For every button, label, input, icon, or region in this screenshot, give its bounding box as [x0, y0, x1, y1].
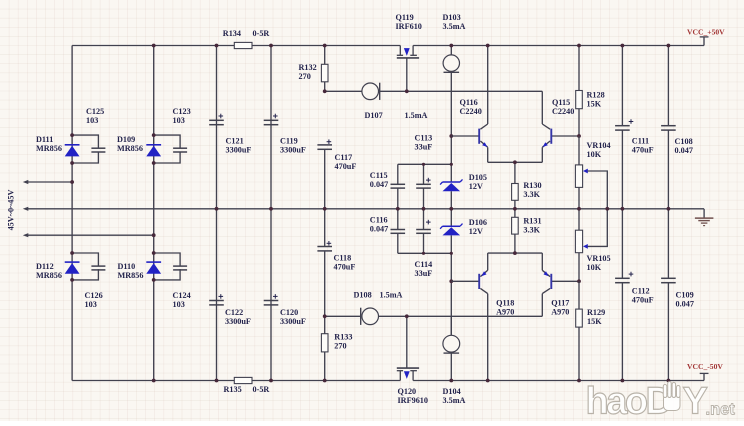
svg-text:12V: 12V: [469, 182, 483, 191]
node junction Q117 base: [577, 279, 581, 283]
svg-text:Q115: Q115: [552, 98, 570, 107]
svg-text:haoD: haoD: [586, 381, 672, 422]
svg-text:C116: C116: [370, 216, 388, 225]
svg-text:C124: C124: [173, 291, 191, 300]
wire +50V top rail: [72, 45, 704, 47]
diode D104 3.5mA current regulator: [443, 316, 466, 405]
wire lower emitter rail: [488, 252, 543, 254]
svg-text:R130: R130: [523, 181, 541, 190]
svg-text:3300uF: 3300uF: [280, 317, 306, 326]
capacitor C113 33uF: [415, 134, 433, 209]
svg-text:0-5R: 0-5R: [253, 385, 270, 394]
capacitor C125 103: [72, 107, 105, 163]
resistor R130 3.3K: [512, 162, 542, 209]
svg-text:103: 103: [85, 300, 97, 309]
resistor R129 15K: [576, 281, 606, 380]
transistor Q115 C2240: [542, 98, 574, 162]
svg-text:C121: C121: [226, 137, 244, 146]
node junction VR center: [577, 207, 609, 211]
wire Q115 base link: [551, 135, 579, 137]
diode D107 1.5mA current regulator: [362, 83, 428, 120]
resistor R131 3.3K: [512, 209, 542, 253]
capacitor C114 33uF: [415, 209, 433, 278]
svg-text:3.3K: 3.3K: [523, 226, 540, 235]
node junction upper emitters: [513, 160, 517, 164]
wire C117 to center: [324, 149, 326, 209]
svg-text:IRF9610: IRF9610: [398, 396, 428, 405]
svg-text:103: 103: [173, 116, 185, 125]
power VCC +50V: [687, 28, 725, 46]
svg-text:C125: C125: [86, 107, 104, 116]
node junction input bottom: [152, 233, 156, 237]
potentiometer VR104 10K: [575, 136, 610, 209]
svg-text:C2240: C2240: [552, 107, 574, 116]
svg-text:33uF: 33uF: [415, 269, 433, 278]
node junction Q116 collector rail: [486, 44, 490, 48]
svg-text:VCC_+50V: VCC_+50V: [687, 28, 725, 37]
svg-text:C112: C112: [632, 287, 650, 296]
svg-text:D105: D105: [469, 173, 487, 182]
svg-text:D106: D106: [469, 218, 487, 227]
capacitor C112 470uF: [615, 209, 654, 381]
svg-text:D103: D103: [443, 13, 461, 22]
capacitor C124 103: [154, 253, 191, 309]
capacitor C121 3300uF: [209, 46, 251, 209]
svg-text:D109: D109: [117, 135, 135, 144]
svg-text:Q117: Q117: [551, 299, 569, 308]
svg-text:D104: D104: [443, 387, 461, 396]
svg-text:C115: C115: [370, 171, 388, 180]
svg-text:R133: R133: [334, 333, 352, 342]
diode D106 12V zener: [440, 218, 487, 236]
transistor Q118 A970: [479, 253, 514, 380]
node junction R128 rail: [577, 44, 581, 48]
svg-text:3300uF: 3300uF: [226, 146, 252, 155]
potentiometer VR105 10K: [575, 209, 610, 281]
node input arrows: [23, 180, 29, 237]
capacitor C117 470uF: [317, 139, 356, 171]
svg-text:D111: D111: [36, 135, 53, 144]
svg-text:MR856: MR856: [118, 271, 144, 280]
svg-text:MR856: MR856: [36, 144, 62, 153]
node junctions top rail: [152, 44, 671, 48]
svg-text:3.3K: 3.3K: [523, 190, 540, 199]
svg-text:R131: R131: [523, 217, 541, 226]
resistor R135 0-5R: [224, 377, 270, 393]
wire bias bracket bottom: [398, 233, 452, 253]
svg-text:3300uF: 3300uF: [280, 146, 306, 155]
svg-text:A970: A970: [551, 308, 569, 317]
svg-text:Y: Y: [683, 381, 708, 422]
svg-text:C122: C122: [225, 308, 243, 317]
svg-text:VCC_-50V: VCC_-50V: [687, 362, 723, 371]
svg-text:MR856: MR856: [117, 144, 143, 153]
node junction R133-C118: [323, 314, 327, 318]
svg-text:103: 103: [173, 300, 185, 309]
node junctions D110: [152, 251, 156, 282]
svg-text:VR105: VR105: [587, 254, 611, 263]
node junction R129 rail: [577, 379, 581, 383]
svg-text:12V: 12V: [469, 227, 483, 236]
svg-text:C111: C111: [632, 137, 649, 146]
capacitor C123 103: [154, 107, 191, 163]
svg-text:C123: C123: [173, 107, 191, 116]
svg-text:45V~0~45V: 45V~0~45V: [7, 190, 16, 231]
ground: [695, 209, 714, 226]
svg-text:470uF: 470uF: [632, 146, 654, 155]
svg-text:A970: A970: [496, 308, 514, 317]
svg-text:R132: R132: [299, 63, 317, 72]
node junction Q119 gate: [405, 89, 409, 93]
svg-text:D107: D107: [365, 111, 383, 120]
svg-text:C108: C108: [675, 137, 693, 146]
svg-text:C119: C119: [280, 137, 298, 146]
node junctions D109: [152, 133, 156, 165]
wire upper emitter rail: [488, 161, 543, 163]
svg-text:1.5mA: 1.5mA: [380, 291, 403, 300]
svg-text:VR104: VR104: [587, 141, 611, 150]
svg-text:470uF: 470uF: [335, 162, 357, 171]
svg-text:C109: C109: [676, 291, 694, 300]
capacitor C109 0.047: [661, 209, 694, 381]
svg-text:R135: R135: [224, 385, 242, 394]
node junctions center line: [215, 207, 671, 211]
resistor R132 270: [299, 46, 329, 92]
node junction Q118 collector rail: [486, 379, 490, 383]
capacitor C115 0.047: [370, 171, 405, 209]
svg-text:33uF: 33uF: [415, 143, 433, 152]
svg-text:R134: R134: [223, 29, 241, 38]
svg-text:103: 103: [86, 116, 98, 125]
svg-text:0-5R: 0-5R: [253, 29, 270, 38]
svg-text:15K: 15K: [587, 317, 602, 326]
capacitor C119 3300uF: [264, 46, 306, 209]
transistor Q117 A970: [542, 253, 569, 317]
svg-text:470uF: 470uF: [334, 263, 356, 272]
node junctions D111: [70, 133, 74, 165]
node bias junctions: [422, 134, 453, 283]
svg-text:MR856: MR856: [36, 271, 62, 280]
svg-text:1.5mA: 1.5mA: [405, 111, 428, 120]
svg-text:C2240: C2240: [460, 107, 482, 116]
node junction input top: [70, 180, 74, 184]
svg-text:Q116: Q116: [460, 98, 478, 107]
svg-text:C126: C126: [85, 291, 103, 300]
svg-text:D108: D108: [354, 291, 372, 300]
capacitor C108 0.047: [661, 46, 693, 209]
resistor R134 0-5R: [223, 29, 270, 49]
svg-text:Q119: Q119: [396, 13, 414, 22]
wire -50V bottom rail: [72, 380, 704, 382]
transistor Q119 IRF610: [396, 13, 422, 91]
svg-text:Q118: Q118: [496, 299, 514, 308]
node junction R132-C117: [323, 89, 327, 93]
svg-text:C118: C118: [334, 254, 352, 263]
diode D112 MR856: [36, 262, 80, 280]
svg-text:3300uF: 3300uF: [225, 317, 251, 326]
svg-text:15K: 15K: [587, 100, 602, 109]
capacitor C116 0.047: [370, 209, 405, 234]
svg-text:270: 270: [334, 342, 346, 351]
svg-text:C120: C120: [280, 308, 298, 317]
svg-text:D112: D112: [36, 262, 54, 271]
wire left vertical branch 2: [153, 46, 155, 381]
svg-text:3.5mA: 3.5mA: [443, 22, 466, 31]
svg-text:R129: R129: [587, 308, 605, 317]
svg-text:C117: C117: [335, 153, 353, 162]
wire Q118 base link: [451, 280, 479, 282]
capacitor C126 103: [72, 253, 105, 309]
wire input line 45V bottom: [26, 234, 154, 236]
svg-text:470uF: 470uF: [632, 296, 654, 305]
wire upper gate-drive node: [325, 91, 543, 124]
node junction D104 rail: [449, 379, 453, 383]
resistor R128 15K: [576, 46, 605, 137]
svg-text:10K: 10K: [587, 150, 602, 159]
node junctions bottom rail: [152, 379, 671, 383]
svg-text:D110: D110: [118, 262, 136, 271]
diode D109 MR856: [117, 135, 161, 156]
svg-text:C113: C113: [415, 134, 433, 143]
wire Q117 base link: [551, 280, 579, 282]
wire input line 45V top: [26, 181, 73, 183]
power VCC -50V: [687, 362, 723, 381]
svg-text:Q120: Q120: [398, 387, 417, 396]
svg-text:0.047: 0.047: [370, 180, 388, 189]
node junction Q120 gate: [405, 314, 409, 318]
svg-text:0.047: 0.047: [370, 225, 388, 234]
svg-text:R128: R128: [587, 91, 605, 100]
svg-text:IRF610: IRF610: [396, 22, 422, 31]
transistor Q116 C2240: [460, 46, 488, 163]
watermark haoDIY.net: [586, 381, 736, 423]
node junction Q115 base: [577, 134, 581, 138]
capacitor C118 470uF: [317, 209, 355, 316]
svg-text:.net: .net: [706, 401, 736, 419]
capacitor C122 3300uF: [209, 209, 251, 381]
capacitor C111 470uF: [615, 46, 654, 209]
wire Q116 base link: [451, 135, 479, 137]
diode D110 MR856: [118, 262, 162, 280]
wire zener string: [450, 136, 452, 335]
node 45V~0~45V label: [7, 190, 16, 231]
svg-text:10K: 10K: [587, 263, 602, 272]
svg-text:270: 270: [299, 72, 311, 81]
wire center output/ground line: [26, 208, 705, 210]
wire left vertical branch 1: [71, 46, 73, 381]
node junction lower emitters: [513, 251, 517, 255]
transistor Q120 IRF9610: [397, 316, 428, 405]
diode D103 3.5mA current regulator: [443, 13, 466, 136]
svg-text:3.5mA: 3.5mA: [443, 396, 466, 405]
svg-text:0.047: 0.047: [676, 300, 694, 309]
node junctions D112: [70, 251, 74, 282]
diode D108 1.5mA current regulator: [354, 291, 403, 325]
resistor R133 270: [321, 316, 352, 380]
svg-text:C114: C114: [415, 260, 433, 269]
svg-text:0.047: 0.047: [675, 146, 693, 155]
diode D105 12V zener: [440, 173, 487, 191]
wire lower gate-drive node: [325, 294, 543, 317]
node junction D103 rail: [449, 44, 453, 48]
diode D111 MR856: [36, 135, 80, 156]
wire bias bracket top: [398, 164, 452, 184]
capacitor C120 3300uF: [264, 209, 306, 381]
